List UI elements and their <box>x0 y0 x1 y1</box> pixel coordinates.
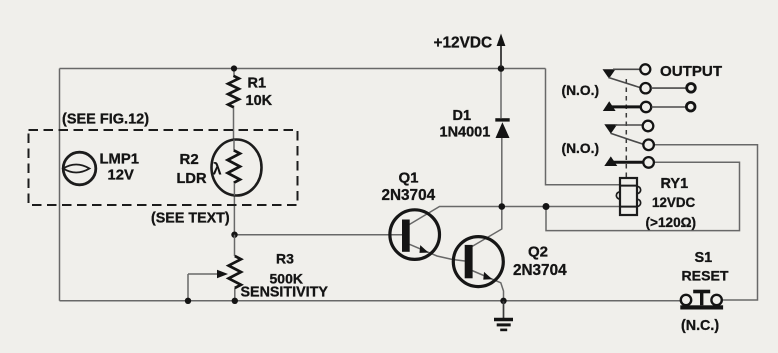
svg-text:R3: R3 <box>276 251 294 267</box>
svg-text:R2: R2 <box>180 151 199 168</box>
svg-text:LDR: LDR <box>177 171 207 187</box>
wire coil bottom to D1/Q2 node <box>502 206 620 208</box>
node dot wiper/ground rail <box>185 298 191 304</box>
wire latch branch to N.O. contact <box>546 162 740 230</box>
svg-text:(N.C.): (N.C.) <box>681 318 719 334</box>
wire Q1 collector to node <box>409 207 502 226</box>
resistor R1 <box>228 75 273 109</box>
svg-text:12V: 12V <box>108 167 134 183</box>
svg-text:2N3704: 2N3704 <box>382 187 436 204</box>
relay contact set 1: N.O. fixed contact <box>603 69 641 78</box>
transistor Q1 <box>382 170 440 260</box>
wire D1 top lead <box>500 69 502 119</box>
svg-text:10K: 10K <box>246 93 273 109</box>
relay contact set 2: N.C. fixed contact row6 <box>604 156 654 167</box>
diode D1 1N4001 <box>440 108 510 141</box>
wire relay common to S1 right <box>654 145 758 300</box>
svg-text:LMP1: LMP1 <box>100 152 139 168</box>
wire Q2 emitter to ground <box>472 271 504 301</box>
ground <box>494 301 513 330</box>
svg-text:(N.O.): (N.O.) <box>562 141 600 156</box>
svg-text:12VDC: 12VDC <box>652 195 695 210</box>
svg-text:D1: D1 <box>453 108 472 124</box>
node dot rail/R1 <box>231 65 237 71</box>
wire bottom ground rail <box>60 300 681 302</box>
svg-text:2N3704: 2N3704 <box>513 262 567 279</box>
label OUTPUT <box>660 63 723 80</box>
svg-text:OUTPUT: OUTPUT <box>660 63 723 80</box>
potentiometer R3 <box>229 235 329 301</box>
relay contact set 2: movable blade <box>611 133 644 144</box>
switch S1 RESET <box>680 250 729 334</box>
relay contact set 1: common terminal row2 <box>640 83 695 93</box>
svg-text:(SEE FIG.12): (SEE FIG.12) <box>62 112 149 128</box>
wire R3 bottom lead <box>234 288 236 301</box>
dashed enclosure box (SEE FIG.12) <box>29 112 298 206</box>
mechanical link dashed line <box>625 79 627 178</box>
wire right drop from rail to relay coil top <box>546 69 621 185</box>
svg-text:Q1: Q1 <box>399 170 419 187</box>
relay contact set 1: terminal circle row1 <box>640 64 650 74</box>
relay coil RY1 <box>616 176 696 230</box>
svg-text:+12VDC: +12VDC <box>434 34 493 51</box>
svg-text:λ: λ <box>213 161 222 179</box>
svg-text:S1: S1 <box>695 250 713 266</box>
label (N.O.) set 1 <box>562 83 600 98</box>
svg-text:R1: R1 <box>248 75 267 91</box>
wire top +12V rail <box>60 68 546 70</box>
svg-text:Q2: Q2 <box>528 244 548 261</box>
node dot R2/R3/Q1 base <box>231 232 237 238</box>
svg-text:(SEE TEXT): (SEE TEXT) <box>151 211 230 227</box>
svg-text:(>120Ω): (>120Ω) <box>646 215 697 230</box>
svg-text:RESET: RESET <box>682 267 729 283</box>
relay contact set 2: N.O. fixed contact row4 <box>604 121 653 134</box>
label (N.O.) set 2 <box>562 141 600 156</box>
photoresistor R2 LDR <box>177 140 262 196</box>
svg-text:RY1: RY1 <box>661 176 689 192</box>
wire Q1 emitter to Q2 base <box>410 244 465 261</box>
node dot D1/Q2 collector <box>499 203 506 210</box>
wire D1 bottom lead <box>501 138 503 207</box>
svg-text:SENSITIVITY: SENSITIVITY <box>241 285 329 301</box>
label (SEE TEXT) <box>151 211 230 227</box>
relay contact set 1: N.C. fixed contact row3 <box>603 101 695 112</box>
node dot rail/+12V <box>498 65 505 72</box>
transistor Q2 <box>453 237 567 287</box>
wire R2 to node A <box>233 196 235 235</box>
node dot latch branch <box>543 203 550 210</box>
lamp LMP1 <box>63 152 139 185</box>
node dot R3/ground rail <box>232 298 238 304</box>
wire Q2 collector <box>472 207 502 247</box>
wire R3 wiper <box>188 270 228 301</box>
relay contact set 1: movable blade <box>609 78 641 88</box>
wire node A to Q1 base <box>235 234 403 236</box>
wire left vertical rail <box>59 69 61 301</box>
svg-text:(N.O.): (N.O.) <box>562 83 600 98</box>
svg-text:1N4001: 1N4001 <box>440 125 491 141</box>
+12VDC supply arrow <box>434 34 506 68</box>
relay contact set 2: common terminal row5 <box>643 140 654 151</box>
wire R1 branch <box>233 69 236 140</box>
node dot Q2 emitter/ground rail <box>500 298 506 304</box>
